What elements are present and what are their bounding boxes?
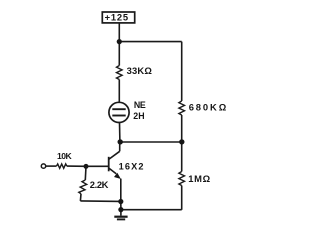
svg-text:NE: NE <box>134 100 146 110</box>
svg-text:2.2K: 2.2K <box>90 179 109 190</box>
svg-text:33KΩ: 33KΩ <box>127 65 153 76</box>
svg-text:+125: +125 <box>105 12 129 23</box>
svg-text:680KΩ: 680KΩ <box>189 101 228 112</box>
svg-text:1MΩ: 1MΩ <box>188 173 211 184</box>
svg-text:10K: 10K <box>57 151 72 161</box>
svg-text:2H: 2H <box>133 111 144 121</box>
svg-text:16X2: 16X2 <box>119 162 145 172</box>
